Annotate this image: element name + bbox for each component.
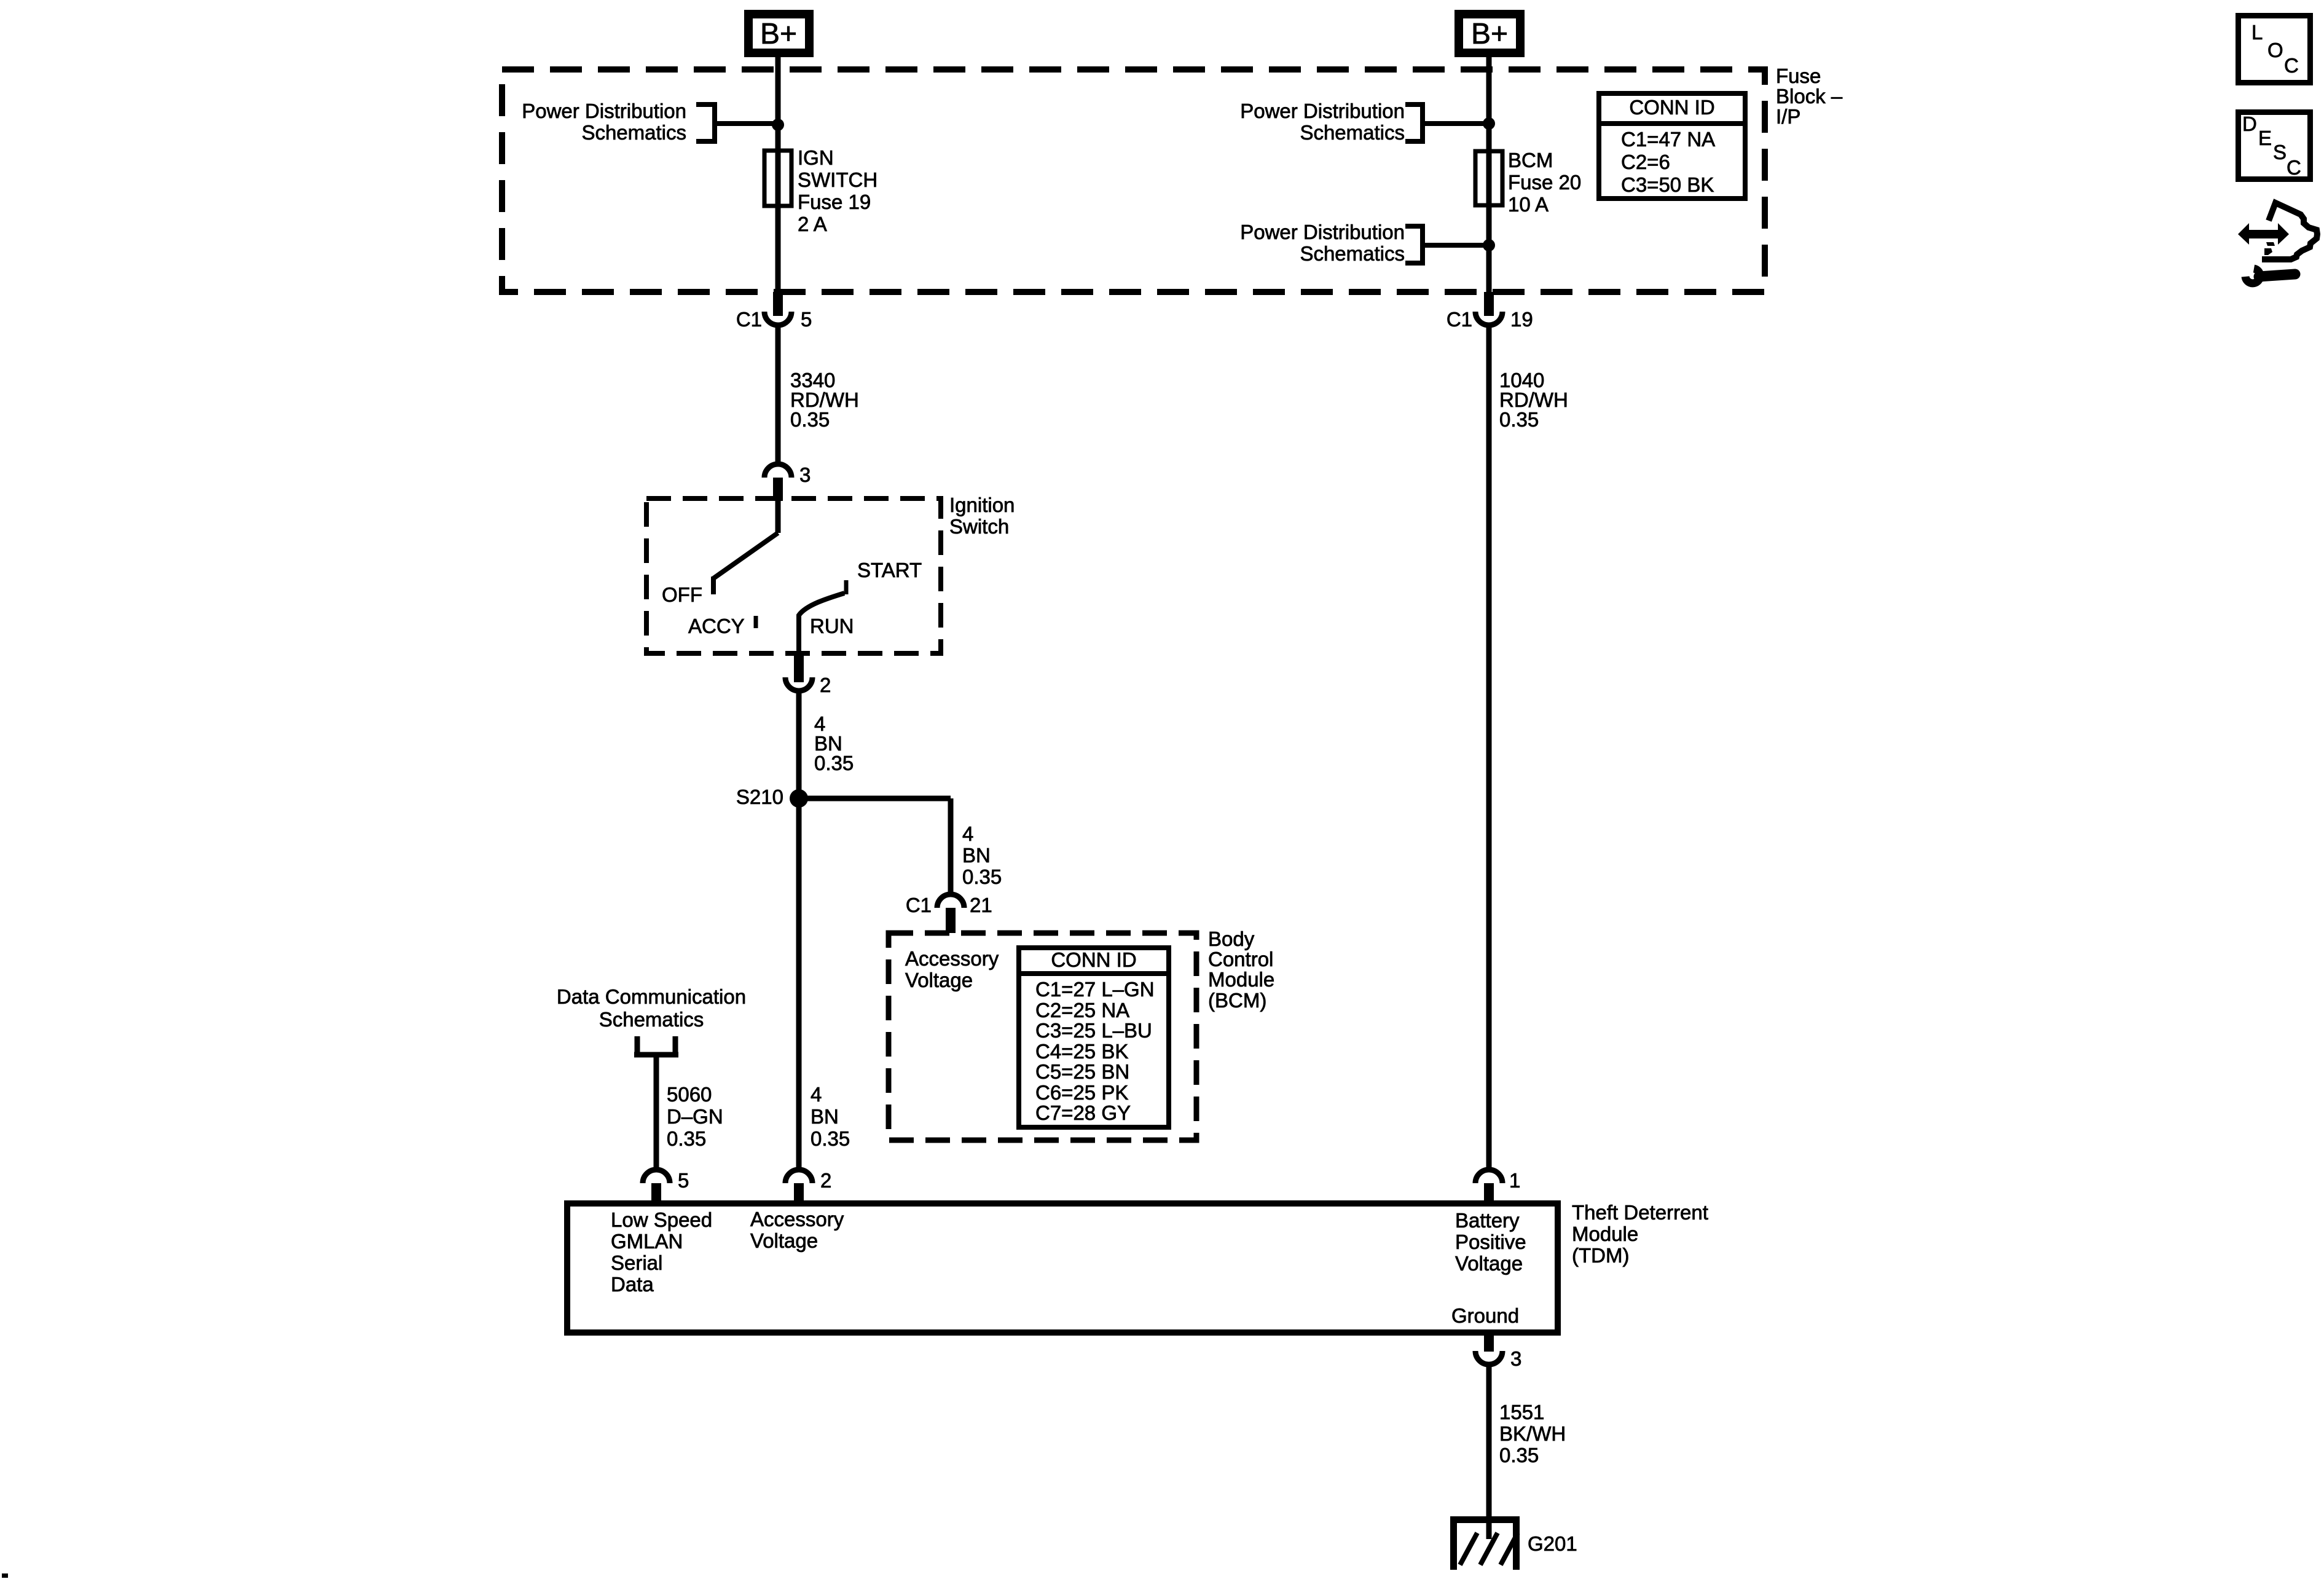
svg-text:0.35: 0.35 [962, 865, 1002, 888]
svg-text:BN: BN [962, 844, 991, 867]
svg-text:3: 3 [799, 463, 811, 486]
svg-text:2: 2 [820, 674, 831, 696]
svg-text:Fuse 20: Fuse 20 [1508, 171, 1581, 194]
svg-text:START: START [857, 559, 922, 581]
svg-text:RUN: RUN [810, 615, 854, 637]
svg-text:Body: Body [1208, 927, 1255, 950]
svg-text:B+: B+ [1471, 18, 1508, 50]
svg-text:C4=25 BK: C4=25 BK [1035, 1040, 1128, 1063]
svg-text:O: O [2267, 39, 2283, 61]
svg-text:C6=25 PK: C6=25 PK [1035, 1081, 1128, 1104]
svg-text:C7=28 GY: C7=28 GY [1035, 1101, 1131, 1124]
svg-text:C2=6: C2=6 [1621, 151, 1670, 173]
svg-text:3: 3 [1510, 1347, 1521, 1370]
svg-text:Theft Deterrent: Theft Deterrent [1572, 1201, 1708, 1224]
svg-text:C1: C1 [736, 308, 762, 331]
svg-text:(TDM): (TDM) [1572, 1244, 1629, 1267]
svg-text:C3=50 BK: C3=50 BK [1621, 173, 1714, 196]
svg-text:Battery: Battery [1455, 1209, 1520, 1232]
svg-text:Ground: Ground [1451, 1304, 1519, 1327]
svg-text:E: E [2258, 127, 2272, 149]
svg-text:5060: 5060 [667, 1083, 712, 1106]
svg-text:D–GN: D–GN [667, 1105, 723, 1128]
svg-text:21: 21 [970, 894, 992, 916]
svg-text:Power Distribution: Power Distribution [1240, 221, 1405, 243]
svg-text:C: C [2287, 156, 2301, 179]
svg-text:Schematics: Schematics [1300, 121, 1405, 144]
svg-text:Ignition: Ignition [949, 494, 1015, 516]
svg-text:C1: C1 [906, 894, 932, 916]
svg-text:Schematics: Schematics [1300, 242, 1405, 265]
svg-text:BCM: BCM [1508, 149, 1553, 171]
svg-text:1: 1 [1509, 1169, 1520, 1192]
svg-text:C1=47 NA: C1=47 NA [1621, 128, 1715, 151]
svg-text:2 A: 2 A [798, 213, 827, 235]
svg-text:Power Distribution: Power Distribution [1240, 100, 1405, 122]
svg-text:GMLAN: GMLAN [611, 1230, 683, 1253]
svg-text:Module: Module [1572, 1223, 1638, 1245]
svg-text:Block –: Block – [1776, 85, 1843, 108]
svg-text:Control: Control [1208, 948, 1273, 971]
svg-text:C1: C1 [1447, 308, 1472, 331]
svg-text:0.35: 0.35 [1499, 408, 1539, 431]
svg-text:2: 2 [820, 1169, 831, 1192]
svg-text:Schematics: Schematics [599, 1008, 704, 1031]
svg-text:4: 4 [962, 822, 973, 845]
svg-text:Fuse: Fuse [1776, 65, 1821, 87]
svg-text:OFF: OFF [662, 583, 702, 606]
svg-text:Low Speed: Low Speed [611, 1208, 712, 1231]
svg-text:C1=27 L–GN: C1=27 L–GN [1035, 978, 1155, 1001]
svg-text:Voltage: Voltage [905, 969, 973, 991]
svg-text:Switch: Switch [949, 515, 1009, 538]
svg-text:4: 4 [811, 1083, 822, 1106]
svg-text:B+: B+ [760, 18, 797, 50]
svg-text:Accessory: Accessory [750, 1208, 844, 1231]
svg-text:C3=25 L–BU: C3=25 L–BU [1035, 1019, 1152, 1042]
svg-text:19: 19 [1510, 308, 1533, 331]
svg-text:C5=25 BN: C5=25 BN [1035, 1060, 1129, 1083]
svg-text:Serial: Serial [611, 1251, 662, 1274]
svg-text:Data: Data [611, 1273, 654, 1296]
svg-text:L: L [2251, 21, 2263, 44]
svg-text:Positive: Positive [1455, 1231, 1526, 1253]
svg-text:Fuse 19: Fuse 19 [798, 191, 871, 213]
svg-text:1551: 1551 [1499, 1401, 1544, 1423]
svg-text:Data Communication: Data Communication [557, 985, 746, 1008]
svg-text:BN: BN [811, 1105, 839, 1128]
svg-text:Voltage: Voltage [1455, 1252, 1523, 1275]
svg-text:5: 5 [801, 308, 812, 331]
svg-text:Voltage: Voltage [750, 1229, 818, 1252]
svg-text:0.35: 0.35 [1499, 1444, 1539, 1467]
svg-text:C2=25 NA: C2=25 NA [1035, 999, 1129, 1022]
svg-text:Power Distribution: Power Distribution [522, 100, 686, 122]
svg-text:I/P: I/P [1776, 105, 1800, 128]
svg-text:S210: S210 [736, 786, 783, 808]
svg-text:Module: Module [1208, 968, 1274, 991]
svg-text:C: C [2284, 54, 2299, 77]
svg-text:CONN ID: CONN ID [1051, 948, 1136, 971]
svg-text:G201: G201 [1528, 1532, 1577, 1555]
svg-text:BK/WH: BK/WH [1499, 1422, 1566, 1445]
svg-text:0.35: 0.35 [790, 408, 830, 431]
svg-text:(BCM): (BCM) [1208, 989, 1266, 1012]
svg-text:10 A: 10 A [1508, 193, 1549, 216]
svg-text:ACCY: ACCY [688, 615, 745, 637]
svg-text:Schematics: Schematics [581, 121, 686, 144]
svg-text:5: 5 [678, 1169, 689, 1192]
svg-text:CONN ID: CONN ID [1629, 96, 1714, 119]
svg-text:0.35: 0.35 [667, 1127, 706, 1150]
svg-text:0.35: 0.35 [811, 1127, 850, 1150]
svg-text:SWITCH: SWITCH [798, 168, 877, 191]
svg-text:0.35: 0.35 [814, 752, 854, 774]
svg-text:S: S [2273, 141, 2287, 163]
svg-text:Accessory: Accessory [905, 947, 999, 970]
svg-text:D: D [2242, 112, 2257, 135]
svg-text:IGN: IGN [798, 146, 834, 169]
